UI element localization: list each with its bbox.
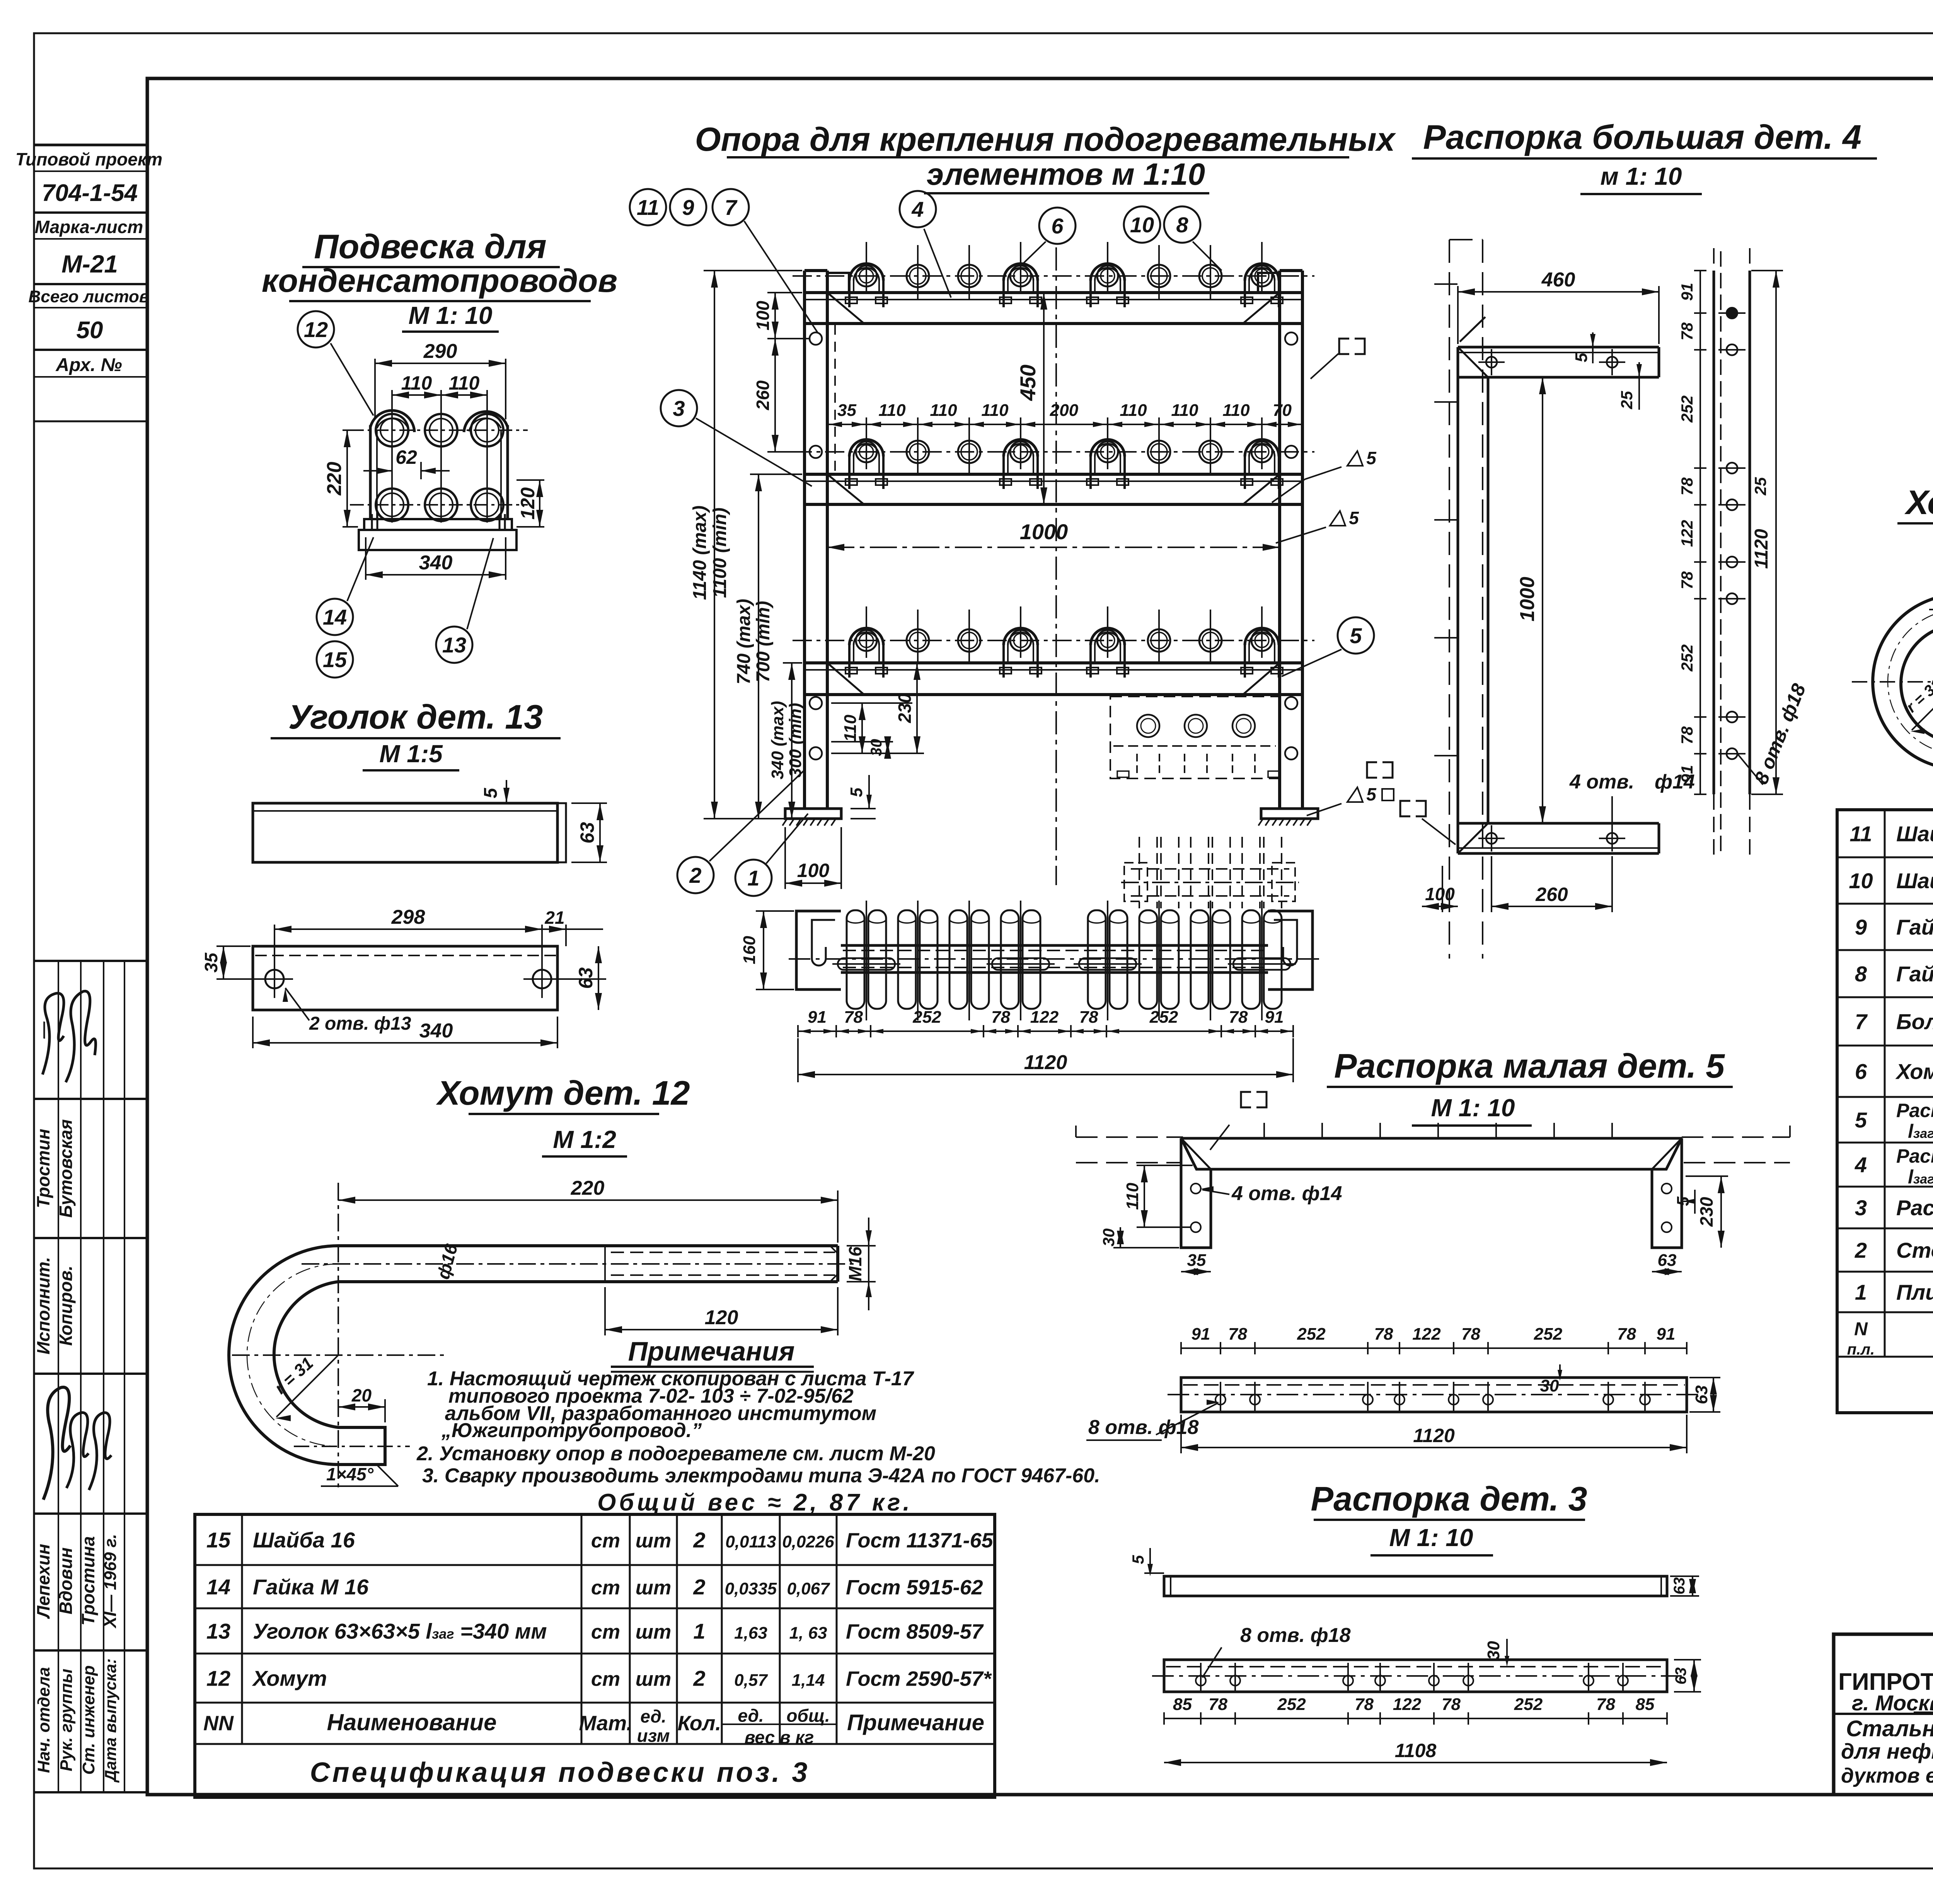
left column stamp strip bbox=[34, 144, 147, 146]
svg-text:м 1: 10: м 1: 10 bbox=[1601, 162, 1682, 190]
svg-text:4 отв.: 4 отв. bbox=[1569, 771, 1634, 793]
svg-text:110: 110 bbox=[1123, 1182, 1142, 1210]
svg-text:91: 91 bbox=[1657, 1325, 1676, 1344]
svg-text:Хомут: Хомут bbox=[252, 1666, 327, 1691]
svg-text:12: 12 bbox=[206, 1666, 230, 1691]
svg-text:Опора для крепления подогреват: Опора для крепления подогревательных bbox=[695, 121, 1396, 158]
svg-text:91: 91 bbox=[1678, 283, 1696, 301]
svg-text:4: 4 bbox=[1855, 1153, 1867, 1177]
svg-text:0,067: 0,067 bbox=[787, 1579, 830, 1598]
svg-text:Стойка: Стойка bbox=[1896, 1238, 1933, 1262]
svg-text:1: 1 bbox=[747, 866, 759, 890]
svg-text:Примечания: Примечания bbox=[628, 1336, 795, 1366]
svg-text:9: 9 bbox=[682, 195, 694, 220]
svg-text:М-21: М-21 bbox=[61, 250, 118, 278]
svg-text:5: 5 bbox=[1349, 508, 1359, 528]
svg-text:Типовой проект: Типовой проект bbox=[15, 149, 162, 169]
распорка3 strip with holes bbox=[1164, 1660, 1667, 1692]
svg-text:Хомут дет. 6: Хомут дет. 6 bbox=[1904, 483, 1933, 521]
svg-text:5: 5 bbox=[1350, 623, 1362, 648]
svg-text:122: 122 bbox=[1393, 1695, 1422, 1714]
svg-text:91: 91 bbox=[1678, 765, 1696, 783]
svg-text:Распорка дет. 3: Распорка дет. 3 bbox=[1311, 1480, 1587, 1518]
svg-text:Гост 11371-65: Гост 11371-65 bbox=[846, 1529, 994, 1552]
svg-text:Болт М 12× 30: Болт М 12× 30 bbox=[1896, 1010, 1933, 1034]
опора clamp row1 bbox=[793, 275, 1314, 277]
svg-text:78: 78 bbox=[1374, 1325, 1393, 1344]
svg-text:63: 63 bbox=[575, 967, 597, 989]
svg-text:Плита 160 × 100 × 5: Плита 160 × 100 × 5 bbox=[1896, 1280, 1933, 1305]
svg-text:Гайка М 16: Гайка М 16 bbox=[253, 1575, 369, 1599]
svg-text:Распорка большая: Распорка большая bbox=[1896, 1145, 1933, 1167]
svg-text:340: 340 bbox=[419, 552, 453, 574]
svg-text:вес в кг: вес в кг bbox=[745, 1727, 814, 1747]
хомут6 J-hook bbox=[1873, 594, 1933, 769]
svg-text:78: 78 bbox=[1617, 1325, 1636, 1344]
svg-text:78: 78 bbox=[1355, 1695, 1374, 1714]
svg-text:460: 460 bbox=[1541, 269, 1575, 291]
svg-text:5: 5 bbox=[1855, 1108, 1867, 1132]
svg-text:Спецификация подвески по: Спецификация подвески поз. 3 bbox=[310, 1757, 810, 1788]
подвеска callout 13 bbox=[436, 627, 472, 663]
svg-text:ст: ст bbox=[591, 1530, 620, 1552]
svg-text:252: 252 bbox=[1534, 1325, 1563, 1344]
svg-text:340: 340 bbox=[419, 1020, 453, 1042]
svg-text:5: 5 bbox=[481, 787, 501, 798]
svg-text:110: 110 bbox=[981, 401, 1009, 420]
svg-text:3: 3 bbox=[1855, 1196, 1867, 1220]
svg-text:78: 78 bbox=[1596, 1695, 1615, 1714]
svg-text:Шайба 16: Шайба 16 bbox=[253, 1528, 355, 1552]
svg-text:30: 30 bbox=[1540, 1376, 1559, 1395]
svg-text:260: 260 bbox=[1535, 884, 1568, 905]
svg-text:изм: изм bbox=[637, 1726, 670, 1746]
svg-text:63: 63 bbox=[1692, 1385, 1711, 1404]
specification table подвески поз.3 bbox=[195, 1514, 995, 1797]
svg-text:1,14: 1,14 bbox=[792, 1671, 825, 1690]
опора left dims (max/min heights) bbox=[704, 270, 802, 271]
svg-text:2 отв. ф13: 2 отв. ф13 bbox=[309, 1013, 411, 1034]
svg-text:11: 11 bbox=[1849, 822, 1872, 846]
svg-text:Шайба 12: Шайба 12 bbox=[1896, 822, 1933, 846]
svg-text:Вдовин: Вдовин bbox=[56, 1547, 76, 1614]
svg-text:5: 5 bbox=[1129, 1555, 1147, 1564]
svg-text:704-1-54: 704-1-54 bbox=[42, 180, 138, 206]
svg-text:8: 8 bbox=[1176, 213, 1188, 237]
опора weld symbols bbox=[1347, 451, 1363, 466]
svg-text:„Южгипротрубопровод.”: „Южгипротрубопровод.” bbox=[441, 1419, 702, 1442]
распорка3 plain strip bbox=[1164, 1576, 1667, 1596]
svg-text:1100 (min): 1100 (min) bbox=[710, 508, 730, 598]
svg-text:Рук. группы: Рук. группы bbox=[57, 1669, 76, 1771]
опора horizontal dim 1000 bbox=[827, 547, 1280, 548]
left column signature table bbox=[34, 960, 147, 962]
svg-text:Марка-лист: Марка-лист bbox=[35, 217, 143, 237]
svg-text:Всего листов: Всего листов bbox=[29, 287, 150, 306]
svg-text:120: 120 bbox=[705, 1306, 738, 1329]
svg-text:Ст. инженер: Ст. инженер bbox=[79, 1665, 98, 1775]
svg-text:N: N bbox=[1854, 1319, 1868, 1340]
svg-text:700 (min): 700 (min) bbox=[753, 601, 774, 683]
svg-text:252: 252 bbox=[1149, 1008, 1178, 1027]
svg-text:Копиров.: Копиров. bbox=[56, 1265, 76, 1346]
svg-text:78: 78 bbox=[1228, 1325, 1247, 1344]
svg-text:298: 298 bbox=[391, 906, 425, 928]
svg-text:63: 63 bbox=[1671, 1577, 1688, 1595]
svg-text:11: 11 bbox=[637, 195, 659, 220]
уголок side view bbox=[253, 803, 557, 862]
svg-text:элементов м 1:10: элементов м 1:10 bbox=[927, 157, 1205, 191]
svg-text:110: 110 bbox=[401, 372, 432, 394]
svg-text:Хомут дет. 12: Хомут дет. 12 bbox=[435, 1074, 690, 1112]
svg-text:Уголок дет. 13: Уголок дет. 13 bbox=[288, 698, 543, 736]
specification table опоры поз.2 bbox=[1837, 810, 1933, 1413]
svg-text:122: 122 bbox=[1678, 520, 1696, 547]
svg-text:14: 14 bbox=[323, 605, 347, 629]
svg-text:100: 100 bbox=[797, 860, 830, 881]
svg-text:Подвеска для: Подвеска для bbox=[314, 227, 546, 266]
svg-text:25: 25 bbox=[1618, 391, 1636, 409]
svg-text:340 (max): 340 (max) bbox=[768, 701, 787, 779]
svg-text:78: 78 bbox=[1678, 322, 1696, 341]
подвеска dims bbox=[374, 359, 376, 419]
svg-text:252: 252 bbox=[1297, 1325, 1326, 1344]
svg-text:110: 110 bbox=[1222, 401, 1250, 420]
svg-text:110: 110 bbox=[841, 714, 860, 742]
svg-text:63: 63 bbox=[576, 822, 598, 844]
svg-text:12: 12 bbox=[304, 317, 328, 342]
svg-text:М 1:2: М 1:2 bbox=[553, 1126, 616, 1153]
svg-text:Арх. №: Арх. № bbox=[55, 355, 122, 375]
svg-text:30: 30 bbox=[1099, 1228, 1118, 1247]
svg-text:35: 35 bbox=[201, 952, 221, 973]
svg-text:62: 62 bbox=[395, 446, 417, 468]
svg-text:8: 8 bbox=[1855, 962, 1867, 986]
распорка5 strip view bbox=[1181, 1378, 1687, 1412]
svg-text:50: 50 bbox=[77, 317, 103, 344]
svg-text:252: 252 bbox=[1678, 395, 1696, 423]
svg-text:М 1:5: М 1:5 bbox=[379, 740, 443, 768]
опора sub-assembly (dashed) lower right bbox=[1110, 697, 1279, 778]
svg-text:78: 78 bbox=[991, 1008, 1010, 1027]
опора lower-left small dims 230 110 30 bbox=[831, 702, 912, 704]
опора dim 450 bbox=[1043, 293, 1045, 504]
svg-text:6: 6 bbox=[1051, 214, 1064, 238]
svg-text:300 (min): 300 (min) bbox=[786, 703, 805, 777]
svg-text:252: 252 bbox=[1678, 644, 1696, 672]
svg-text:1, 63: 1, 63 bbox=[789, 1624, 827, 1643]
svg-text:Стальной резервуар: Стальной резервуар bbox=[1846, 1716, 1933, 1741]
svg-text:30: 30 bbox=[868, 739, 885, 756]
svg-text:78: 78 bbox=[1209, 1695, 1227, 1714]
svg-text:78: 78 bbox=[1229, 1008, 1248, 1027]
svg-text:110: 110 bbox=[449, 372, 480, 394]
svg-text:2: 2 bbox=[693, 1575, 705, 1599]
svg-text:общ.: общ. bbox=[786, 1706, 830, 1726]
svg-text:Наименование: Наименование bbox=[327, 1710, 496, 1735]
svg-text:252: 252 bbox=[912, 1008, 941, 1027]
svg-text:4 отв. ф14: 4 отв. ф14 bbox=[1231, 1182, 1342, 1205]
svg-text:0,57: 0,57 bbox=[734, 1671, 768, 1690]
svg-text:1: 1 bbox=[693, 1619, 705, 1643]
svg-text:8 отв. ф18: 8 отв. ф18 bbox=[1240, 1624, 1351, 1647]
svg-text:5: 5 bbox=[1366, 784, 1377, 804]
svg-text:220: 220 bbox=[571, 1177, 605, 1199]
svg-text:2: 2 bbox=[1855, 1238, 1867, 1262]
svg-text:Тростина: Тростина bbox=[78, 1536, 98, 1625]
svg-text:для нефти и нефтепро-: для нефти и нефтепро- bbox=[1841, 1739, 1933, 1763]
svg-text:220: 220 bbox=[323, 462, 346, 496]
svg-text:110: 110 bbox=[930, 401, 957, 420]
svg-text:М 1: 10: М 1: 10 bbox=[1431, 1094, 1515, 1122]
svg-text:110: 110 bbox=[1120, 401, 1147, 420]
опора dim chain 35,110x3,200,110x3,70 bbox=[827, 424, 1302, 425]
svg-text:1×45°: 1×45° bbox=[326, 1464, 374, 1484]
svg-text:100: 100 bbox=[753, 301, 773, 330]
svg-text:1120: 1120 bbox=[1024, 1051, 1067, 1074]
svg-text:5: 5 bbox=[847, 787, 866, 797]
svg-text:1000: 1000 bbox=[1020, 519, 1068, 544]
svg-text:6: 6 bbox=[1855, 1059, 1867, 1084]
svg-text:25: 25 bbox=[1751, 477, 1769, 496]
svg-text:1120: 1120 bbox=[1751, 529, 1772, 569]
svg-text:290: 290 bbox=[423, 340, 457, 363]
svg-text:200: 200 bbox=[1050, 401, 1079, 420]
опора bottom view (channel from below) bbox=[796, 911, 841, 989]
svg-text:Мат.: Мат. bbox=[579, 1712, 632, 1735]
svg-text:ст: ст bbox=[591, 1621, 620, 1643]
опора callouts bbox=[630, 189, 666, 225]
svg-text:160: 160 bbox=[740, 936, 759, 964]
svg-text:0,0113: 0,0113 bbox=[725, 1533, 776, 1551]
svg-text:91: 91 bbox=[1265, 1008, 1284, 1027]
svg-text:740 (max): 740 (max) bbox=[734, 599, 754, 684]
svg-text:г. Москва: г. Москва bbox=[1852, 1691, 1933, 1715]
svg-text:30: 30 bbox=[1484, 1641, 1503, 1660]
подвеска: bracket drawing bbox=[369, 425, 372, 519]
svg-text:78: 78 bbox=[1079, 1008, 1098, 1027]
svg-text:15: 15 bbox=[206, 1528, 231, 1552]
svg-text:шт: шт bbox=[636, 1621, 671, 1643]
svg-text:2: 2 bbox=[689, 863, 701, 887]
svg-text:Нач. отдела: Нач. отдела bbox=[34, 1667, 53, 1773]
svg-text:Гайка М12: Гайка М12 bbox=[1896, 915, 1933, 939]
svg-text:шт: шт bbox=[636, 1577, 671, 1599]
svg-text:Тростин: Тростин bbox=[33, 1129, 53, 1208]
svg-text:2. Установку опор в подогреват: 2. Установку опор в подогревателе см. ли… bbox=[416, 1442, 935, 1465]
svg-text:63: 63 bbox=[1672, 1667, 1689, 1685]
svg-text:7: 7 bbox=[1855, 1010, 1868, 1034]
svg-text:1120: 1120 bbox=[1413, 1425, 1455, 1446]
svg-text:10: 10 bbox=[1130, 213, 1154, 237]
svg-text:2: 2 bbox=[693, 1666, 705, 1691]
svg-text:450: 450 bbox=[1016, 364, 1040, 401]
svg-text:15: 15 bbox=[323, 647, 347, 672]
svg-text:0,0335: 0,0335 bbox=[725, 1579, 777, 1598]
хомут12 J-hook bbox=[229, 1246, 385, 1465]
svg-text:63: 63 bbox=[1658, 1251, 1677, 1270]
svg-text:XI— 1969 г.: XI— 1969 г. bbox=[101, 1534, 120, 1629]
svg-text:252: 252 bbox=[1514, 1695, 1543, 1714]
svg-text:230: 230 bbox=[1696, 1197, 1717, 1227]
опора clamp row3 bbox=[793, 640, 1314, 641]
svg-text:ед.: ед. bbox=[738, 1706, 764, 1726]
svg-text:шт: шт bbox=[636, 1668, 671, 1691]
svg-text:дуктов емкостью 1000 м³: дуктов емкостью 1000 м³ bbox=[1841, 1764, 1933, 1787]
svg-text:Общий вес ≈ 2, 87 кг.: Общий вес ≈ 2, 87 кг. bbox=[597, 1489, 913, 1516]
svg-text:1,63: 1,63 bbox=[734, 1624, 767, 1643]
svg-text:Уголок 63×63×5 lзаг =340 мм: Уголок 63×63×5 lзаг =340 мм bbox=[253, 1619, 547, 1643]
опора: posts and beams bbox=[803, 271, 806, 809]
svg-text:252: 252 bbox=[1277, 1695, 1306, 1714]
svg-text:М16: М16 bbox=[845, 1247, 865, 1281]
подвеска callout 12 bbox=[298, 311, 334, 347]
распорка4 side strip bbox=[1713, 271, 1715, 794]
svg-text:М 1: 10: М 1: 10 bbox=[1389, 1524, 1473, 1551]
svg-text:21: 21 bbox=[544, 908, 564, 928]
опора vertical centerline bbox=[1055, 247, 1057, 885]
svg-text:9: 9 bbox=[1855, 915, 1867, 939]
svg-text:ст: ст bbox=[591, 1668, 620, 1691]
svg-text:85: 85 bbox=[1636, 1695, 1655, 1714]
svg-text:78: 78 bbox=[1678, 571, 1696, 589]
svg-text:Шайба 16: Шайба 16 bbox=[1896, 869, 1933, 893]
svg-text:Распорка большая дет. 4: Распорка большая дет. 4 bbox=[1423, 118, 1861, 156]
svg-text:Гост 5915-62: Гост 5915-62 bbox=[846, 1576, 983, 1599]
svg-text:Дата выпуска:: Дата выпуска: bbox=[101, 1659, 119, 1783]
svg-text:91: 91 bbox=[1192, 1325, 1210, 1344]
svg-text:230: 230 bbox=[895, 693, 915, 723]
svg-text:Гайка М 16: Гайка М 16 bbox=[1896, 962, 1933, 986]
svg-text:0,0226: 0,0226 bbox=[782, 1533, 834, 1551]
svg-text:шт: шт bbox=[636, 1530, 671, 1552]
svg-text:78: 78 bbox=[1461, 1325, 1480, 1344]
svg-text:ст: ст bbox=[591, 1577, 620, 1599]
svg-text:13: 13 bbox=[206, 1619, 230, 1643]
svg-text:Хомут: Хомут bbox=[1895, 1059, 1933, 1084]
svg-text:Гост 2590-57*: Гост 2590-57* bbox=[846, 1667, 992, 1691]
svg-text:78: 78 bbox=[1442, 1695, 1461, 1714]
svg-text:п.л.: п.л. bbox=[1847, 1341, 1875, 1358]
svg-text:91: 91 bbox=[808, 1008, 827, 1027]
svg-text:Исполнит.: Исполнит. bbox=[33, 1257, 53, 1354]
svg-text:Распорка малая: Распорка малая bbox=[1896, 1100, 1933, 1121]
svg-text:1000: 1000 bbox=[1516, 577, 1539, 622]
svg-text:85: 85 bbox=[1173, 1695, 1192, 1714]
svg-text:100: 100 bbox=[1425, 884, 1455, 904]
svg-text:М 1: 10: М 1: 10 bbox=[409, 301, 493, 329]
svg-text:Гост 8509-57: Гост 8509-57 bbox=[846, 1620, 984, 1643]
svg-text:4: 4 bbox=[911, 197, 924, 221]
svg-text:8 отв. ф18: 8 отв. ф18 bbox=[1088, 1416, 1199, 1439]
svg-text:5: 5 bbox=[1366, 448, 1377, 468]
распорка4 front view bbox=[1449, 240, 1450, 959]
svg-text:78: 78 bbox=[1678, 726, 1696, 744]
svg-text:1: 1 bbox=[1855, 1280, 1867, 1305]
svg-text:260: 260 bbox=[753, 380, 773, 410]
svg-text:14: 14 bbox=[206, 1575, 230, 1599]
svg-text:NN: NN bbox=[203, 1712, 234, 1735]
svg-text:3: 3 bbox=[673, 396, 685, 421]
svg-text:7: 7 bbox=[724, 195, 738, 220]
подвеска callout 14 bbox=[317, 599, 353, 635]
svg-text:конденсатопроводов: конденсатопроводов bbox=[262, 262, 617, 299]
svg-text:1140 (max): 1140 (max) bbox=[690, 506, 710, 600]
svg-text:110: 110 bbox=[878, 401, 906, 420]
title block bbox=[1834, 1634, 1933, 1795]
svg-text:Распорка: Распорка bbox=[1896, 1196, 1933, 1220]
svg-text:13: 13 bbox=[442, 633, 466, 657]
svg-text:10: 10 bbox=[1849, 869, 1873, 893]
распорка5 top view bbox=[1076, 1136, 1183, 1138]
svg-text:122: 122 bbox=[1030, 1008, 1059, 1027]
svg-text:70: 70 bbox=[1273, 401, 1292, 420]
svg-text:Примечание: Примечание bbox=[847, 1710, 984, 1735]
svg-text:ед.: ед. bbox=[640, 1706, 666, 1727]
svg-text:1108: 1108 bbox=[1395, 1740, 1437, 1761]
svg-text:20: 20 bbox=[351, 1385, 372, 1405]
svg-text:78: 78 bbox=[844, 1008, 863, 1027]
svg-text:Бутовская: Бутовская bbox=[56, 1119, 76, 1218]
svg-text:110: 110 bbox=[1171, 401, 1198, 420]
опора clamp row2 bbox=[793, 451, 1314, 453]
svg-text:Распорка малая дет. 5: Распорка малая дет. 5 bbox=[1334, 1047, 1725, 1085]
svg-text:Лепехин: Лепехин bbox=[33, 1544, 53, 1619]
svg-text:3. Сварку производить электрод: 3. Сварку производить электродами типа Э… bbox=[422, 1465, 1100, 1487]
svg-text:120: 120 bbox=[517, 487, 539, 520]
svg-text:Кол.: Кол. bbox=[678, 1712, 721, 1735]
svg-text:35: 35 bbox=[1187, 1251, 1206, 1270]
svg-text:78: 78 bbox=[1678, 477, 1696, 496]
опора bottom dims 100, 5 bbox=[784, 827, 786, 889]
svg-text:122: 122 bbox=[1412, 1325, 1441, 1344]
svg-text:2: 2 bbox=[693, 1528, 705, 1552]
svg-text:35: 35 bbox=[837, 401, 856, 420]
уголок top view with holes bbox=[253, 946, 557, 1010]
подвеска callout 15 bbox=[317, 641, 353, 678]
svg-text:5: 5 bbox=[1572, 353, 1591, 362]
